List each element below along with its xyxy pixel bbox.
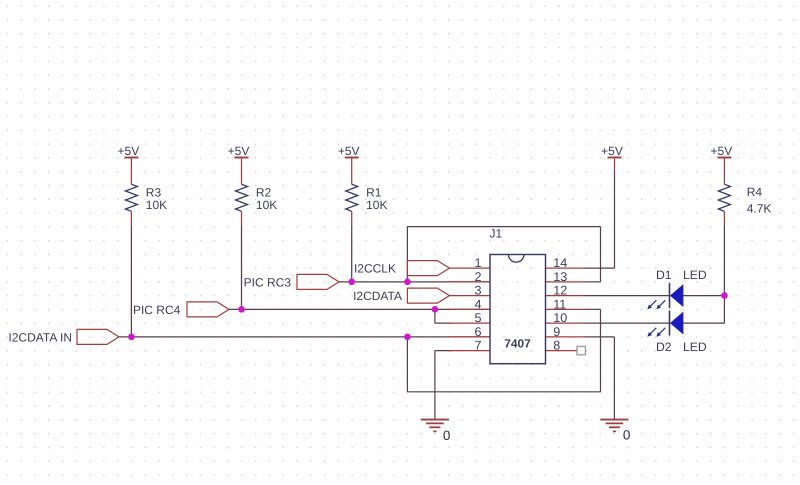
svg-text:2: 2 bbox=[474, 270, 481, 284]
svg-text:R2: R2 bbox=[256, 185, 272, 199]
svg-text:7: 7 bbox=[474, 339, 481, 353]
svg-text:5: 5 bbox=[474, 311, 481, 325]
svg-text:1: 1 bbox=[474, 256, 481, 270]
svg-text:LED: LED bbox=[683, 268, 707, 282]
svg-text:+5V: +5V bbox=[118, 144, 140, 158]
svg-text:6: 6 bbox=[474, 325, 481, 339]
svg-text:J1: J1 bbox=[490, 227, 503, 241]
svg-text:LED: LED bbox=[683, 340, 707, 354]
svg-text:R3: R3 bbox=[146, 185, 162, 199]
svg-text:10K: 10K bbox=[366, 198, 387, 212]
svg-text:3: 3 bbox=[474, 284, 481, 298]
svg-text:10: 10 bbox=[553, 311, 567, 325]
svg-text:10K: 10K bbox=[146, 198, 167, 212]
svg-text:0: 0 bbox=[623, 428, 631, 443]
svg-text:10K: 10K bbox=[256, 198, 277, 212]
svg-text:7407: 7407 bbox=[504, 336, 531, 350]
svg-text:D1: D1 bbox=[656, 268, 672, 282]
svg-text:PIC RC4: PIC RC4 bbox=[133, 303, 181, 317]
svg-text:D2: D2 bbox=[656, 340, 672, 354]
svg-text:+5V: +5V bbox=[338, 144, 360, 158]
svg-text:9: 9 bbox=[553, 325, 560, 339]
svg-text:+5V: +5V bbox=[711, 144, 733, 158]
svg-text:14: 14 bbox=[553, 256, 567, 270]
svg-text:+5V: +5V bbox=[601, 144, 623, 158]
svg-text:PIC RC3: PIC RC3 bbox=[244, 275, 292, 289]
svg-text:I2CDATA IN: I2CDATA IN bbox=[8, 330, 72, 344]
svg-text:4.7K: 4.7K bbox=[747, 201, 772, 215]
svg-text:+5V: +5V bbox=[228, 144, 250, 158]
svg-text:R4: R4 bbox=[747, 185, 763, 199]
svg-text:I2CCLK: I2CCLK bbox=[354, 262, 396, 276]
svg-text:13: 13 bbox=[553, 270, 567, 284]
svg-text:0: 0 bbox=[443, 428, 451, 443]
svg-text:11: 11 bbox=[553, 297, 566, 311]
svg-text:12: 12 bbox=[553, 284, 567, 298]
svg-text:8: 8 bbox=[553, 339, 560, 353]
svg-text:R1: R1 bbox=[366, 185, 382, 199]
svg-text:4: 4 bbox=[474, 297, 481, 311]
svg-text:I2CDATA: I2CDATA bbox=[353, 289, 402, 303]
